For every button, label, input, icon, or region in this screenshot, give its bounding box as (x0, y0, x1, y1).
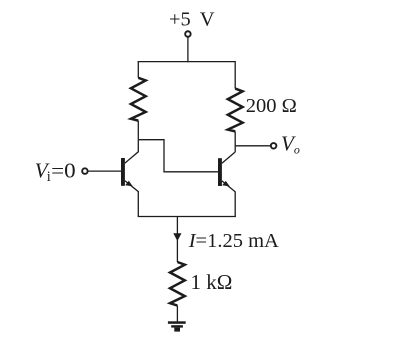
wire: bottom rail (138, 216, 236, 218)
svg-text:200 Ω: 200 Ω (246, 95, 297, 117)
ground (168, 321, 186, 331)
wire: +5V stem to top rail (187, 37, 189, 62)
wire: current-source tap down from bottom rail (176, 217, 178, 263)
svg-text:+5V: +5V (169, 9, 215, 31)
Q1 emitter arrow (125, 181, 133, 187)
Q2 collector lead (222, 152, 235, 163)
wire: input terminal to Q1 base (88, 170, 121, 172)
svg-text:1 kΩ: 1 kΩ (191, 270, 233, 294)
Q2 emitter arrow (222, 181, 230, 187)
wire: left resistor top lead (137, 61, 139, 78)
wire: left resistor bottom lead to collector node (137, 121, 139, 140)
Q2 base bar (218, 158, 222, 186)
transistor Q1 (121, 140, 138, 217)
svg-text:Vo: Vo (281, 132, 300, 157)
terminal Vo (271, 143, 277, 149)
resistor left (collector load of Q1) (131, 78, 146, 121)
wire: right resistor bottom lead / Q2 collector vertical (234, 131, 236, 152)
svg-text:Vi=0: Vi=0 (35, 159, 76, 186)
Q1 emitter lead (125, 181, 138, 217)
terminal +5V (185, 31, 191, 37)
Q1 collector lead (125, 140, 138, 163)
resistor R 1 kohm (170, 262, 185, 306)
Q1 base bar (121, 158, 125, 186)
Q2 emitter lead (222, 181, 235, 217)
wire: 1 kΩ bottom lead to ground (176, 306, 178, 322)
wire: output node to Vo terminal (235, 145, 270, 147)
resistor R 200 ohm (228, 89, 243, 132)
transistor Q2 (218, 152, 235, 217)
wire: top rail (138, 61, 236, 63)
svg-text:I=1.25 mA: I=1.25 mA (188, 230, 279, 252)
current arrow I (173, 233, 181, 241)
terminal Vi (82, 168, 88, 174)
wire: right resistor top lead (234, 61, 236, 89)
wire: jog from Q1 collector node to Q2 base (138, 140, 218, 172)
